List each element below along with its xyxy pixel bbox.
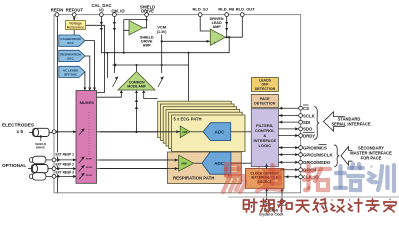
wm char she2 (331, 199, 344, 212)
electrode symbol ext resp 1 (29, 156, 54, 163)
wire common mode amp right input from ecg stack (144, 91, 158, 99)
respiration ADC (202, 152, 231, 174)
leads off detection block (252, 78, 279, 92)
common mode amp switches (113, 77, 164, 87)
clock gen block (246, 169, 285, 189)
svg-text:REFIN: REFIN (51, 8, 64, 13)
tiny switch captions (86, 159, 92, 178)
watermark char xun (369, 165, 394, 191)
wire ext resp 1 to muxes (54, 159, 77, 161)
wire ac leads off dac to muxes (84, 72, 86, 91)
svg-text:CS: CS (303, 106, 309, 111)
junction dot RLD feedback node (226, 36, 228, 38)
pin ext resp 3 (52, 175, 56, 179)
AC leads off DAC (59, 66, 85, 77)
pin RLD_FB (225, 13, 229, 17)
svg-text:DRIVE: DRIVE (141, 9, 154, 14)
pin RLD_OUT (240, 13, 244, 17)
voltage reference block (66, 21, 86, 30)
svg-text:SCLK: SCLK (303, 113, 316, 118)
wm char pin (261, 199, 275, 212)
arrowhead CS into block (279, 107, 282, 110)
wire common mode amp output to bus (136, 65, 138, 72)
svg-text:RESP2: RESP2 (86, 167, 92, 169)
arrowheads ext resp 2 bidirectional (56, 167, 59, 170)
wm char jia (384, 199, 396, 212)
svg-text:(1.3V): (1.3V) (157, 30, 167, 34)
wire filters to clock gen (266, 164, 268, 169)
svg-text:+: + (214, 40, 216, 44)
wm char he (278, 199, 292, 212)
wire resp amp to adc (194, 162, 202, 164)
wires into respiration amp over card (100, 159, 179, 161)
pin SDO (299, 127, 303, 131)
pin REFIN (55, 13, 59, 17)
arrowhead into voltage reference (73, 18, 76, 21)
wire muxes to common mode amp input (97, 91, 122, 97)
wire CM_IO down to common-mode bus (113, 15, 115, 73)
watermark bottom red text (vector approximations) (244, 199, 397, 212)
pin CLK_IO (299, 175, 303, 179)
pin REFOUT (72, 13, 76, 17)
svg-text:RLD_FB: RLD_FB (218, 7, 234, 12)
watermark char tuo (304, 165, 330, 190)
wire muxes to respiration amp in2 (97, 168, 179, 170)
svg-text:AMP: AMP (181, 162, 187, 166)
arrowheads common mode amp inputs (120, 90, 123, 93)
svg-text:ADC: ADC (215, 130, 226, 135)
svg-text:EXT RESP 1: EXT RESP 1 (56, 153, 75, 157)
svg-text:FOR PACE: FOR PACE (361, 155, 382, 160)
brace secondary master interface (334, 145, 339, 167)
pin XTAL1 (265, 200, 269, 204)
respiration amp (179, 155, 194, 171)
wire voltage reference to calibration dac (73, 30, 75, 36)
wire GPIO1 (278, 154, 300, 156)
junction dot VCM node (161, 40, 163, 42)
svg-text:DAC: DAC (67, 56, 74, 60)
wire respiration adc output to filters block (241, 162, 251, 164)
respiration path card (100, 152, 241, 184)
pin RLD_SJ (198, 13, 202, 17)
junction dot cm amp output on bus (136, 64, 138, 66)
pin GPIO1 (299, 153, 303, 157)
svg-text:Crystal or Clock: Crystal or Clock (259, 212, 284, 216)
pin SDI (299, 120, 303, 124)
5 x ECG path stacked cards (158, 101, 245, 151)
wm char tian (296, 201, 309, 213)
svg-text:5 x ECG PATH: 5 x ECG PATH (174, 117, 202, 122)
svg-text:EXT RESP 3: EXT RESP 3 (56, 171, 75, 175)
wire RLD_SJ to driven lead amp - input (200, 15, 210, 31)
wire common-mode bus (113, 64, 189, 66)
wire CLK_IO (284, 176, 301, 178)
wire into ecg amp over card (100, 131, 180, 133)
pin DRDY (299, 134, 303, 138)
right pin name labels (303, 105, 334, 180)
svg-text:AMP: AMP (143, 43, 152, 47)
junction dot vcm on bus (161, 64, 163, 66)
xtal wires and pins (267, 188, 282, 200)
wire SCLK (278, 115, 300, 117)
mux switch marks (79, 129, 85, 180)
wm char zhuan (366, 199, 379, 211)
wire ecg adc to card edge (231, 131, 245, 133)
wire net drop toward cm switch (106, 53, 108, 78)
junction dot net elbow (106, 52, 108, 54)
wm char xian (313, 199, 327, 212)
svg-text:IO: IO (99, 8, 104, 13)
arrowheads into respiration amp (175, 159, 178, 162)
arrowheads ext resp 1 bidirectional (56, 158, 59, 161)
svg-text:SDI: SDI (303, 120, 310, 125)
common mode amp (points up) (118, 72, 155, 91)
pin ext resp 2 (52, 167, 56, 171)
wire REFIN rail down left side (57, 15, 59, 193)
arrowheads GPIO bidirectional (279, 146, 282, 149)
wire CS (278, 107, 300, 109)
arrowhead SDO out (295, 127, 298, 130)
svg-text:Reference: Reference (67, 25, 84, 29)
right side interface wires and pins (278, 108, 300, 177)
brace standard serial interface (314, 107, 319, 140)
pin ext resp 1 (52, 158, 56, 162)
svg-text:VCM: VCM (157, 24, 167, 29)
pin GPIO2 (299, 160, 303, 164)
watermark char yi (223, 164, 245, 192)
svg-text:RESPIRATION PATH: RESPIRATION PATH (173, 176, 214, 181)
electrode symbol ext resp 3 (29, 173, 54, 180)
svg-text:OPTIONAL: OPTIONAL (2, 163, 26, 168)
wire VCM to driven lead amp + input (162, 40, 211, 42)
pin SHIELD_DRIVE (145, 13, 149, 17)
electrode symbol main (x5) (29, 128, 54, 149)
pin CS (299, 106, 303, 110)
arrowhead into ecg amp (176, 130, 179, 133)
wire ecg amp to adc (190, 131, 203, 133)
svg-text:GPIO0/MCS: GPIO0/MCS (303, 145, 327, 150)
watermark separator line (228, 196, 399, 198)
flow arrows on RLD_FB wire (225, 22, 228, 25)
filters control interface logic block (251, 109, 278, 167)
ecg ADC (203, 123, 231, 141)
wire GPIO3 (281, 169, 301, 171)
junction dot RLD output branch (228, 36, 230, 38)
chip boundary box (54, 15, 301, 193)
wire bus drop to ecg stack (188, 53, 190, 101)
wire GPIO2 (278, 161, 300, 163)
svg-text:AMP: AMP (212, 25, 221, 29)
label SHIELD DRIVE AMP (140, 35, 154, 47)
wire respiration dac to muxes (85, 56, 90, 91)
svg-text:DRDY: DRDY (303, 133, 315, 138)
svg-text:DAC: DAC (67, 41, 74, 45)
svg-text:DRIVE: DRIVE (36, 146, 45, 150)
wire CAL_DAC_IO down (100, 15, 102, 53)
wire shield amp output to SHIELD_DRIVE pin (143, 16, 147, 28)
svg-text:MODE AMP: MODE AMP (127, 84, 146, 88)
svg-text:GPIO1/MSCLK: GPIO1/MSCLK (303, 152, 334, 157)
svg-text:LOGIC: LOGIC (258, 143, 271, 148)
wire ext resp 2 to muxes (54, 168, 77, 170)
flow arrows on CAL_DAC_IO wire (100, 22, 103, 25)
respiration DAC (59, 50, 85, 61)
pin XTAL2 (280, 200, 284, 204)
wire electrode to muxes (54, 131, 77, 133)
label ELECTRODES x 5 (2, 122, 34, 168)
wire RLD_FB down to output (226, 15, 228, 38)
ecg amp (180, 126, 190, 138)
wire muxes to ecg path (97, 131, 181, 133)
electrode symbol ext resp 2 (28, 165, 54, 173)
svg-text:ELECTRODES: ELECTRODES (2, 122, 34, 127)
svg-text:DETECTION: DETECTION (254, 101, 276, 105)
svg-text:MUXES: MUXES (80, 100, 95, 105)
watermark char pei (335, 164, 363, 190)
arrowhead into driven lead amp (207, 40, 210, 43)
svg-text:RESP3: RESP3 (86, 175, 92, 177)
wm char she (244, 199, 258, 212)
svg-text:RLD_SJ: RLD_SJ (193, 7, 208, 12)
callout arrow secondary master interface (341, 147, 353, 166)
svg-text:SDO: SDO (303, 127, 313, 132)
svg-text:EXT RESP 2: EXT RESP 2 (56, 162, 75, 166)
wire driven lead amp output to RLD_OUT (225, 15, 242, 38)
driven lead amp (210, 29, 225, 46)
arrowheads ext resp 3 bidirectional (56, 175, 59, 178)
pace detection block (251, 94, 278, 107)
svg-text:AMP: AMP (182, 131, 188, 134)
svg-text:SERIAL INTERFACE: SERIAL INTERFACE (331, 122, 371, 127)
svg-text:PACE: PACE (260, 97, 271, 101)
wire VCM down to bus (161, 41, 163, 73)
wire calibration dac to muxes (85, 41, 95, 91)
wire muxes to respiration amp in1 (97, 159, 179, 161)
pin GPIO0 (299, 146, 303, 150)
pin GPIO3 (299, 168, 303, 172)
label DRIVEN LEAD AMP (210, 17, 224, 29)
wire DRDY (278, 135, 300, 137)
svg-text:RLD_OUT: RLD_OUT (236, 7, 255, 12)
pin CAL_DAC_IO (100, 13, 104, 17)
pin electrodes (52, 130, 56, 134)
watermark char di (257, 165, 282, 191)
wire resp adc to card edge (231, 162, 241, 164)
wire shield amp feedback (124, 20, 147, 31)
wire ecg tap up to common mode amp (136, 91, 138, 132)
flow arrows on CM_IO wire (113, 22, 116, 25)
label VCM (1.3V) (157, 24, 167, 33)
wire SDI (278, 121, 300, 123)
junction dot ecg tap (135, 131, 137, 133)
labels EXT RESP (55, 152, 76, 174)
watermark big characters (vector approximations) (223, 164, 330, 192)
wm char ji (349, 199, 363, 212)
wire shield amp input from net (123, 30, 125, 52)
arrowheads electrode line bidirectional (55, 130, 58, 133)
wire REFOUT to voltage reference (73, 15, 75, 21)
callout arrow standard serial interface (324, 112, 346, 131)
svg-text:OFF DAC: OFF DAC (64, 72, 78, 76)
wire VCM stem (161, 35, 163, 42)
wire voltage reference rail to muxes hook (86, 25, 105, 92)
dashed guide inside muxes (88, 112, 90, 156)
junction dot bus-net tee (188, 52, 190, 54)
wire horizontal net y=52.7 to RLD output (101, 37, 229, 53)
junction dot shield input node (123, 52, 125, 54)
pin SCLK (299, 114, 303, 118)
svg-text:DETECTION: DETECTION (255, 87, 276, 91)
calibration DAC (59, 35, 85, 46)
pin CM_IO (113, 13, 117, 17)
wire ext resp 3 to muxes (54, 175, 77, 177)
shield drive amp U-shield (129, 21, 143, 36)
svg-text:-: - (214, 30, 215, 34)
wire SDO (278, 128, 300, 130)
MUXES block (76, 91, 97, 184)
svg-text:x 5: x 5 (17, 129, 24, 134)
svg-text:RESP1: RESP1 (86, 159, 92, 161)
arrowhead bus left end (113, 63, 116, 66)
svg-text:CM_IO: CM_IO (111, 9, 125, 14)
junction dot shield feedback node (146, 19, 148, 21)
svg-text:ADC: ADC (214, 161, 225, 166)
wire GPIO0 (278, 147, 300, 149)
arrowheads into muxes top (93, 88, 96, 91)
wire ecg adc output to filters block (244, 131, 252, 133)
svg-text:REFOUT: REFOUT (66, 8, 84, 13)
label crystal note (259, 203, 287, 216)
